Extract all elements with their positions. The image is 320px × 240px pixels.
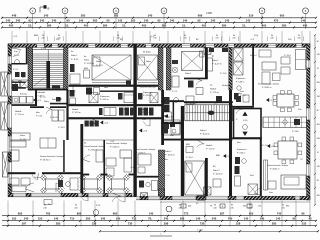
svg-text:240: 240 bbox=[232, 38, 235, 40]
A door y107 bbox=[46, 109, 52, 113]
svg-text:140: 140 bbox=[276, 217, 281, 221]
svg-text:40: 40 bbox=[309, 217, 312, 221]
A door in y172 wall bbox=[32, 174, 37, 179]
svg-text:Soba 2: Soba 2 bbox=[250, 55, 257, 57]
svg-text:Kupaonica: Kupaonica bbox=[100, 96, 110, 98]
svg-text:163: 163 bbox=[12, 217, 17, 221]
svg-text:340: 340 bbox=[40, 19, 45, 23]
svg-text:P: 4,4: P: 4,4 bbox=[262, 145, 268, 147]
svg-text:240: 240 bbox=[164, 217, 169, 221]
svg-text:240: 240 bbox=[74, 207, 77, 209]
bottom bubble bbox=[166, 206, 172, 212]
svg-text:P: 11,3: P: 11,3 bbox=[96, 65, 103, 67]
svg-text:P: 4,43 m: P: 4,43 m bbox=[237, 153, 246, 155]
D wall y139.5 bbox=[161, 139, 232, 141]
svg-text:140: 140 bbox=[183, 19, 188, 23]
svg-text:240: 240 bbox=[317, 166, 320, 168]
A living sofa bbox=[10, 133, 30, 140]
B closet bbox=[96, 150, 103, 162]
svg-text:Hodnik: Hodnik bbox=[15, 111, 22, 113]
left balcony 2 bbox=[1, 102, 8, 130]
svg-text:90: 90 bbox=[44, 205, 46, 207]
svg-text:90: 90 bbox=[184, 35, 186, 37]
svg-text:P: 10,35 m: P: 10,35 m bbox=[213, 174, 223, 176]
svg-text:P: 2,4: P: 2,4 bbox=[240, 95, 246, 97]
svg-text:15,: 15, bbox=[122, 23, 126, 27]
svg-text:Kuh.: Kuh. bbox=[298, 109, 303, 111]
svg-text:P: 2,1: P: 2,1 bbox=[13, 69, 18, 71]
svg-text:140: 140 bbox=[79, 19, 84, 23]
svg-text:Soba 2: Soba 2 bbox=[200, 130, 207, 132]
svg-text:90: 90 bbox=[107, 19, 110, 23]
svg-text:(2.0): (2.0) bbox=[254, 35, 258, 37]
svg-text:Izlaz: Izlaz bbox=[269, 192, 273, 194]
D corridor blobs bbox=[188, 81, 194, 88]
svg-text:285: 285 bbox=[56, 222, 61, 226]
B y174 wall stubs bbox=[83, 174, 89, 176]
svg-text:Dnevni boravak i kuhinja: Dnevni boravak i kuhinja bbox=[40, 156, 64, 158]
svg-text:90: 90 bbox=[42, 35, 44, 37]
svg-text:P: 11,31: P: 11,31 bbox=[71, 59, 79, 61]
svg-text:240: 240 bbox=[16, 19, 21, 23]
E sofa cluster upper bbox=[262, 62, 276, 70]
bottom exterior wall left half bbox=[8, 193, 13, 197]
svg-text:265: 265 bbox=[93, 19, 98, 23]
A bottom strip dining cluster bbox=[46, 179, 59, 189]
svg-text:365: 365 bbox=[317, 124, 320, 126]
svg-text:240: 240 bbox=[230, 207, 233, 209]
B wall y117.5 bbox=[69, 117, 134, 119]
svg-text:90: 90 bbox=[317, 41, 319, 43]
E S15 shaft room bbox=[234, 109, 262, 139]
svg-text:608: 608 bbox=[198, 14, 203, 18]
svg-text:76,: 76, bbox=[148, 217, 152, 221]
svg-text:260: 260 bbox=[86, 217, 91, 221]
svg-text:240: 240 bbox=[211, 19, 216, 23]
A porch doors bottom bbox=[26, 183, 35, 189]
svg-text:P: 4,69 m: P: 4,69 m bbox=[143, 95, 152, 97]
bottom crossed column 1 bbox=[141, 193, 148, 198]
A bottom strip armchairs bbox=[10, 178, 19, 185]
partition x66 B bath west bbox=[66, 90, 68, 140]
stair A west pier bbox=[28, 47, 33, 90]
bottom exterior wall right half bbox=[136, 195, 140, 197]
svg-text:540: 540 bbox=[260, 217, 265, 221]
B bedroom bed X bbox=[92, 55, 131, 80]
E lower dining table bbox=[278, 141, 297, 159]
D wall y78 bbox=[184, 78, 208, 80]
svg-text:240: 240 bbox=[270, 38, 273, 40]
svg-text:P: 12,5: P: 12,5 bbox=[190, 103, 197, 105]
A wall x27 top bbox=[26, 47, 28, 64]
svg-text:4b5: 4b5 bbox=[188, 206, 191, 208]
E bath walls bbox=[260, 138, 262, 196]
svg-text:715: 715 bbox=[70, 217, 75, 221]
svg-text:78: 78 bbox=[210, 206, 212, 208]
svg-text:405: 405 bbox=[262, 23, 267, 27]
A wall x35 vertical bbox=[35, 90, 37, 106]
svg-text:Kuh.: Kuh. bbox=[142, 119, 147, 121]
svg-text:15,: 15, bbox=[182, 23, 186, 27]
A wall y90 below stair bbox=[28, 89, 68, 91]
svg-text:P: 28,70 m: P: 28,70 m bbox=[40, 160, 51, 162]
D bottom bed X bbox=[185, 161, 205, 195]
D shaft wall x205 bottom bbox=[205, 158, 208, 196]
C crossed box bottom pier bbox=[158, 189, 165, 196]
B shower bbox=[89, 93, 98, 103]
bottom patio door arcs bbox=[81, 196, 89, 201]
svg-text:760: 760 bbox=[46, 212, 51, 216]
top dim line 3 bbox=[2, 26, 316, 28]
bottom dim line 1 bbox=[2, 215, 310, 217]
E wall x252 bbox=[252, 44, 254, 106]
svg-text:280: 280 bbox=[162, 23, 167, 27]
svg-text:240: 240 bbox=[24, 217, 29, 221]
svg-text:140: 140 bbox=[244, 217, 249, 221]
svg-text:P: 1,51 m: P: 1,51 m bbox=[15, 114, 24, 116]
svg-text:P: 10,45 m: P: 10,45 m bbox=[200, 134, 210, 136]
svg-text:90: 90 bbox=[216, 35, 218, 37]
E upper dining table bbox=[277, 94, 294, 107]
svg-text:240: 240 bbox=[212, 217, 217, 221]
stair A treads bbox=[33, 50, 64, 89]
svg-text:P: 10,35: P: 10,35 bbox=[50, 117, 58, 119]
A level flag bbox=[33, 98, 36, 102]
svg-text:92: 92 bbox=[198, 19, 201, 23]
svg-text:4b5: 4b5 bbox=[243, 206, 246, 208]
svg-text:397: 397 bbox=[22, 222, 27, 226]
svg-text:240: 240 bbox=[43, 207, 46, 209]
svg-text:158: 158 bbox=[236, 222, 241, 226]
svg-text:Dnevni boravak i kuhinja: Dnevni boravak i kuhinja bbox=[134, 149, 156, 151]
A top entry door arc bbox=[13, 50, 21, 57]
svg-text:265: 265 bbox=[81, 14, 86, 18]
E kitchen counter row bbox=[263, 117, 307, 128]
svg-text:WC: WC bbox=[164, 107, 168, 109]
svg-text:92: 92 bbox=[158, 19, 161, 23]
svg-text:265: 265 bbox=[114, 14, 119, 18]
B wall y91 seg bbox=[100, 91, 134, 92]
C wall y176 bbox=[137, 176, 159, 178]
svg-text:730: 730 bbox=[128, 222, 133, 226]
svg-text:163: 163 bbox=[249, 212, 254, 216]
svg-text:90: 90 bbox=[117, 35, 119, 37]
stair A east pier / wall bbox=[64, 47, 68, 90]
svg-text:340: 340 bbox=[170, 19, 175, 23]
bottom crossed column 2 bbox=[197, 196, 205, 200]
C closet bottom-left bbox=[138, 154, 151, 165]
svg-text:962: 962 bbox=[286, 206, 289, 208]
C wall y104.5 bbox=[137, 104, 162, 106]
svg-text:Dnevni boravak i kuhinja: Dnevni boravak i kuhinja bbox=[258, 84, 280, 86]
svg-text:P: 7,9: P: 7,9 bbox=[40, 97, 46, 99]
svg-text:240: 240 bbox=[317, 96, 320, 98]
svg-text:BM3: BM3 bbox=[84, 68, 88, 70]
svg-text:Dnevni boravak i kuhinja: Dnevni boravak i kuhinja bbox=[267, 165, 289, 167]
svg-text:P: 28,61 m: P: 28,61 m bbox=[262, 87, 272, 89]
svg-text:265: 265 bbox=[131, 19, 136, 23]
svg-text:+3,5: +3,5 bbox=[271, 146, 276, 148]
svg-text:15,: 15, bbox=[65, 23, 69, 27]
svg-text:P: 23,3: P: 23,3 bbox=[88, 123, 95, 125]
E corner shelf bbox=[296, 50, 306, 70]
B sofa L right bbox=[120, 150, 132, 158]
A bottom bath fixtures bbox=[58, 180, 63, 187]
svg-text:155: 155 bbox=[38, 217, 43, 221]
svg-text:P: 1,2: P: 1,2 bbox=[70, 91, 76, 93]
bottom dim line 3 bbox=[2, 225, 316, 227]
left balcony 3 bbox=[3, 152, 9, 177]
svg-text:1.460: 1.460 bbox=[197, 229, 203, 231]
svg-text:90: 90 bbox=[317, 180, 319, 182]
svg-text:140: 140 bbox=[301, 19, 306, 23]
svg-text:P: 2,0: P: 2,0 bbox=[164, 175, 170, 177]
C wall y85 bbox=[137, 85, 159, 87]
section marker B bbox=[39, 7, 41, 13]
D bed soba1 top bbox=[182, 52, 203, 71]
svg-text:P: 10,4: P: 10,4 bbox=[186, 157, 193, 159]
svg-text:298: 298 bbox=[164, 222, 169, 226]
E tall cupboard bbox=[264, 160, 268, 190]
svg-text:P: 11,07 m: P: 11,07 m bbox=[212, 64, 222, 66]
svg-text:B: B bbox=[48, 7, 50, 11]
B closet BM3 bbox=[84, 70, 90, 78]
svg-text:15,: 15, bbox=[28, 23, 32, 27]
C kitchen counter right bbox=[162, 120, 181, 135]
svg-text:Soba 1: Soba 1 bbox=[185, 73, 192, 75]
svg-text:365: 365 bbox=[317, 82, 320, 84]
svg-text:P: 7,20 m: P: 7,20 m bbox=[206, 149, 215, 151]
svg-text:80: 80 bbox=[67, 19, 70, 23]
svg-text:90: 90 bbox=[214, 205, 216, 207]
B door living bbox=[92, 122, 99, 127]
A dark pair rects bbox=[15, 72, 20, 77]
top dim line 2 bbox=[2, 22, 316, 24]
svg-text:Dnevni boravak i kuhinja: Dnevni boravak i kuhinja bbox=[84, 146, 106, 148]
C bath below bbox=[139, 181, 144, 188]
svg-text:+3,5: +3,5 bbox=[143, 131, 148, 133]
svg-text:143: 143 bbox=[246, 19, 251, 23]
svg-text:890: 890 bbox=[77, 212, 82, 216]
svg-text:280: 280 bbox=[47, 23, 52, 27]
svg-text:P: 3,95 m: P: 3,95 m bbox=[72, 112, 81, 114]
svg-text:Soba 1: Soba 1 bbox=[165, 151, 172, 153]
svg-text:P: 28,61 m: P: 28,61 m bbox=[270, 169, 280, 171]
svg-text:340: 340 bbox=[44, 14, 49, 18]
svg-text:280: 280 bbox=[222, 23, 227, 27]
A wall y106.5 bbox=[30, 106, 44, 108]
svg-text:742: 742 bbox=[277, 212, 282, 216]
svg-text:693: 693 bbox=[18, 212, 23, 216]
witness lines to wall bbox=[11, 31, 13, 44]
D shaft wall x205 bbox=[205, 47, 208, 78]
svg-text:P: 7,95 m: P: 7,95 m bbox=[210, 92, 219, 94]
bottom dim line 2 bbox=[2, 220, 316, 222]
svg-text:50: 50 bbox=[196, 203, 198, 205]
svg-text:140: 140 bbox=[144, 19, 149, 23]
svg-text:Kup.: Kup. bbox=[14, 51, 19, 53]
svg-text:140: 140 bbox=[54, 217, 59, 221]
svg-text:96: 96 bbox=[293, 217, 296, 221]
svg-text:P: 10,35 m: P: 10,35 m bbox=[165, 155, 175, 157]
B wall y85 bbox=[69, 85, 134, 87]
E sofa bottom bbox=[281, 175, 306, 189]
svg-text:240: 240 bbox=[215, 38, 218, 40]
top dim line 1 bbox=[2, 17, 316, 19]
svg-text:140: 140 bbox=[196, 217, 201, 221]
B kitchen counter at living top bbox=[85, 121, 89, 127]
A wall y93 right seg bbox=[50, 103, 68, 105]
svg-text:365: 365 bbox=[317, 195, 320, 197]
svg-text:P: 11,31 m: P: 11,31 m bbox=[84, 63, 94, 65]
A wall y64 bbox=[12, 63, 26, 65]
svg-text:405: 405 bbox=[9, 23, 14, 27]
svg-text:Kuh.: Kuh. bbox=[124, 109, 129, 111]
B thin line y140 bbox=[83, 139, 133, 141]
B mid wall x104 bbox=[103, 140, 105, 193]
svg-text:Soba: Soba bbox=[96, 61, 102, 63]
A wall y88 left part bbox=[12, 87, 26, 89]
B wc + tub bbox=[118, 93, 123, 100]
A x68-80 fixtures bbox=[70, 90, 75, 97]
E shaft crossed boxes bbox=[234, 48, 244, 61]
svg-text:P: 28,6: P: 28,6 bbox=[292, 131, 299, 133]
C/D wall lower bbox=[161, 90, 164, 145]
A washer bbox=[12, 84, 18, 91]
E wall y106 left bbox=[232, 106, 254, 108]
bottom circle left bbox=[93, 210, 99, 216]
svg-text:P: 4,6: P: 4,6 bbox=[150, 87, 156, 89]
B mid sofa rects bbox=[106, 158, 116, 166]
left balcony 1 bbox=[1, 72, 8, 96]
svg-text:Stubiste: Stubiste bbox=[222, 84, 229, 87]
D left rooms fixtures (x162-184, y90-138) bbox=[164, 97, 170, 104]
svg-text:90: 90 bbox=[298, 35, 300, 37]
svg-text:158: 158 bbox=[92, 222, 97, 226]
svg-text:Terasa: Terasa bbox=[34, 176, 41, 179]
svg-text:4b Soba: 4b Soba bbox=[143, 52, 152, 54]
svg-text:Soba: Soba bbox=[52, 99, 58, 101]
svg-text:240: 240 bbox=[41, 38, 44, 40]
svg-text:405: 405 bbox=[202, 23, 207, 27]
svg-text:905: 905 bbox=[280, 14, 285, 18]
svg-text:15,: 15, bbox=[242, 23, 246, 27]
svg-text:P: 4,69 m: P: 4,69 m bbox=[100, 99, 109, 101]
C/D double pier bbox=[158, 47, 163, 90]
svg-text:Soba: Soba bbox=[20, 135, 26, 137]
svg-text:Soba 2: Soba 2 bbox=[213, 170, 220, 172]
svg-text:405: 405 bbox=[303, 23, 308, 27]
wall y97 x161-184 bbox=[161, 100, 184, 102]
svg-text:280: 280 bbox=[282, 23, 287, 27]
bottom extra line bbox=[100, 230, 318, 232]
svg-text:405: 405 bbox=[142, 23, 147, 27]
svg-text:240: 240 bbox=[183, 38, 186, 40]
bottom markers bbox=[181, 204, 186, 208]
C/D lower hatched pier bbox=[158, 150, 164, 196]
svg-text:+3,5: +3,5 bbox=[270, 100, 275, 102]
svg-text:280: 280 bbox=[103, 23, 108, 27]
misc doors bbox=[143, 121, 150, 126]
svg-text:240: 240 bbox=[101, 217, 106, 221]
C kitchen row bbox=[138, 108, 143, 116]
left exterior wall bbox=[8, 44, 12, 56]
svg-text:1.175: 1.175 bbox=[41, 48, 47, 50]
svg-text:Kuhinja: Kuhinja bbox=[20, 94, 28, 96]
svg-text:340: 340 bbox=[148, 14, 153, 18]
svg-text:P: 11,0: P: 11,0 bbox=[220, 73, 227, 75]
svg-text:90: 90 bbox=[75, 205, 77, 207]
svg-text:143: 143 bbox=[118, 19, 123, 23]
svg-text:Hodnik: Hodnik bbox=[72, 109, 78, 111]
svg-text:P: 3,1: P: 3,1 bbox=[14, 55, 20, 57]
svg-text:240: 240 bbox=[297, 38, 300, 40]
C shower right bbox=[150, 93, 158, 103]
svg-text:140: 140 bbox=[116, 217, 121, 221]
svg-text:P: 5,49 m: P: 5,49 m bbox=[236, 82, 245, 84]
B mid wall x63 upper bbox=[63, 140, 64, 172]
svg-text:Hodnik: Hodnik bbox=[210, 89, 216, 91]
wall y172 left half bbox=[8, 172, 36, 174]
svg-text:Kupaonica: Kupaonica bbox=[236, 78, 246, 80]
svg-text:90: 90 bbox=[271, 35, 273, 37]
party wall B/C central bbox=[133, 44, 136, 197]
party wall D/E bbox=[229, 47, 232, 90]
svg-text:92: 92 bbox=[29, 19, 32, 23]
svg-text:472: 472 bbox=[274, 19, 279, 23]
svg-text:140: 140 bbox=[225, 19, 230, 23]
A closet rects bbox=[52, 110, 58, 121]
svg-text:P: 10,3: P: 10,3 bbox=[58, 127, 65, 129]
svg-text:90: 90 bbox=[58, 35, 60, 37]
svg-text:240: 240 bbox=[317, 54, 320, 56]
A crossed boxes bbox=[12, 80, 20, 88]
svg-text:90: 90 bbox=[231, 205, 233, 207]
svg-text:2.080: 2.080 bbox=[206, 13, 212, 15]
C room fixtures x171-181 bbox=[172, 67, 177, 72]
svg-text:P: 23,30 m: P: 23,30 m bbox=[88, 150, 98, 152]
stair A diagonal arrow bbox=[34, 78, 44, 86]
svg-text:Dnevni boravak i kuhinja: Dnevni boravak i kuhinja bbox=[106, 143, 128, 145]
svg-text:448: 448 bbox=[12, 14, 17, 18]
svg-text:240: 240 bbox=[178, 207, 181, 209]
svg-text:90: 90 bbox=[317, 110, 319, 112]
svg-text:96: 96 bbox=[302, 212, 305, 216]
svg-text:405: 405 bbox=[84, 23, 89, 27]
svg-text:S 15: S 15 bbox=[243, 120, 248, 122]
svg-text:240: 240 bbox=[52, 19, 57, 23]
svg-text:219: 219 bbox=[249, 14, 254, 18]
right vertical dim bbox=[314, 35, 316, 205]
svg-text:240: 240 bbox=[317, 138, 320, 140]
top exterior wall bbox=[8, 44, 37, 48]
svg-text:140: 140 bbox=[149, 212, 154, 216]
svg-text:90: 90 bbox=[179, 205, 181, 207]
B wall y104.5 bbox=[69, 104, 134, 106]
svg-text:Soba: Soba bbox=[146, 61, 152, 63]
svg-text:Soba 1: Soba 1 bbox=[212, 60, 219, 62]
svg-text:745: 745 bbox=[228, 217, 233, 221]
svg-text:P: 23,30 m: P: 23,30 m bbox=[110, 147, 120, 149]
S15 arrow left bbox=[164, 114, 169, 118]
svg-text:140: 140 bbox=[6, 19, 11, 23]
svg-text:BM1: BM1 bbox=[186, 144, 190, 146]
B door bedroom bbox=[66, 86, 73, 92]
stair A spine dark bbox=[46, 61, 50, 89]
svg-text:Predsoblje: Predsoblje bbox=[36, 92, 45, 94]
svg-text:240: 240 bbox=[213, 207, 216, 209]
C bedroom bed X bbox=[138, 55, 158, 80]
